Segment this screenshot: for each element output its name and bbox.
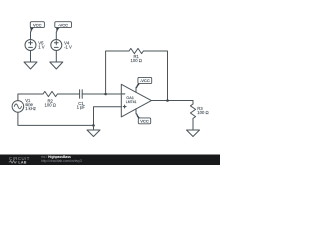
svg-text:-1 V: -1 V (64, 44, 72, 49)
net flag -VCC (V4) (55, 22, 72, 40)
svg-text:VCC: VCC (140, 119, 149, 124)
wire V4 to ground (55, 51, 57, 63)
svg-text:1 µF: 1 µF (77, 105, 86, 110)
resistor R3 (190, 104, 195, 118)
wire junction to ground (93, 125, 95, 130)
voltage source V5 (25, 40, 36, 51)
resistor R1 (129, 48, 143, 53)
resistor R2 (43, 91, 57, 96)
capacitor C1 (80, 90, 83, 98)
feedback wire across and down to output (143, 51, 167, 101)
wire R2 to C1 (57, 93, 79, 95)
svg-text:1 kHz: 1 kHz (25, 106, 36, 111)
feedback wire up and across (106, 51, 129, 94)
ground (V5) (24, 62, 37, 69)
node junction (inverting input / feedback) (104, 93, 107, 96)
svg-text:LAB: LAB (18, 161, 26, 165)
wire C1 to op-amp inverting input (82, 93, 121, 95)
voltage source V4 (51, 40, 62, 51)
svg-text:LM741: LM741 (126, 100, 137, 104)
wire V5 to ground (30, 51, 32, 63)
node junction (output / feedback) (166, 99, 169, 102)
svg-text:1 V: 1 V (38, 44, 44, 49)
ground (input rail) (87, 130, 100, 137)
svg-text:100 Ω: 100 Ω (197, 110, 208, 115)
wire R3 to ground (192, 118, 194, 130)
node junction (ground rail) (92, 124, 95, 127)
wire non-inverting input to ground rail (94, 107, 122, 126)
footer watermark bar (0, 155, 220, 166)
wire op-amp output to R3 (151, 101, 193, 105)
wire V1 top to R2 (18, 94, 43, 101)
svg-text:-VCC: -VCC (58, 23, 68, 28)
svg-text:100 Ω: 100 Ω (45, 102, 56, 107)
net flag VCC (V5) (30, 22, 45, 40)
voltage source V1 (sine) (12, 101, 24, 113)
svg-text:http://circuitlab.com/cxrbvy3: http://circuitlab.com/cxrbvy3 (41, 159, 82, 163)
ground (R3) (187, 130, 200, 137)
net flag VCC (op-amp V+ bottom) (136, 113, 151, 123)
net flag -VCC (op-amp V- top) (136, 77, 152, 88)
svg-text:-VCC: -VCC (140, 78, 150, 83)
op-amp OA1 LM741 (121, 84, 151, 117)
wire V1 bottom rail (18, 112, 94, 125)
ground (V4) (50, 62, 63, 69)
svg-text:VCC: VCC (33, 23, 42, 28)
svg-text:100 Ω: 100 Ω (131, 58, 142, 63)
